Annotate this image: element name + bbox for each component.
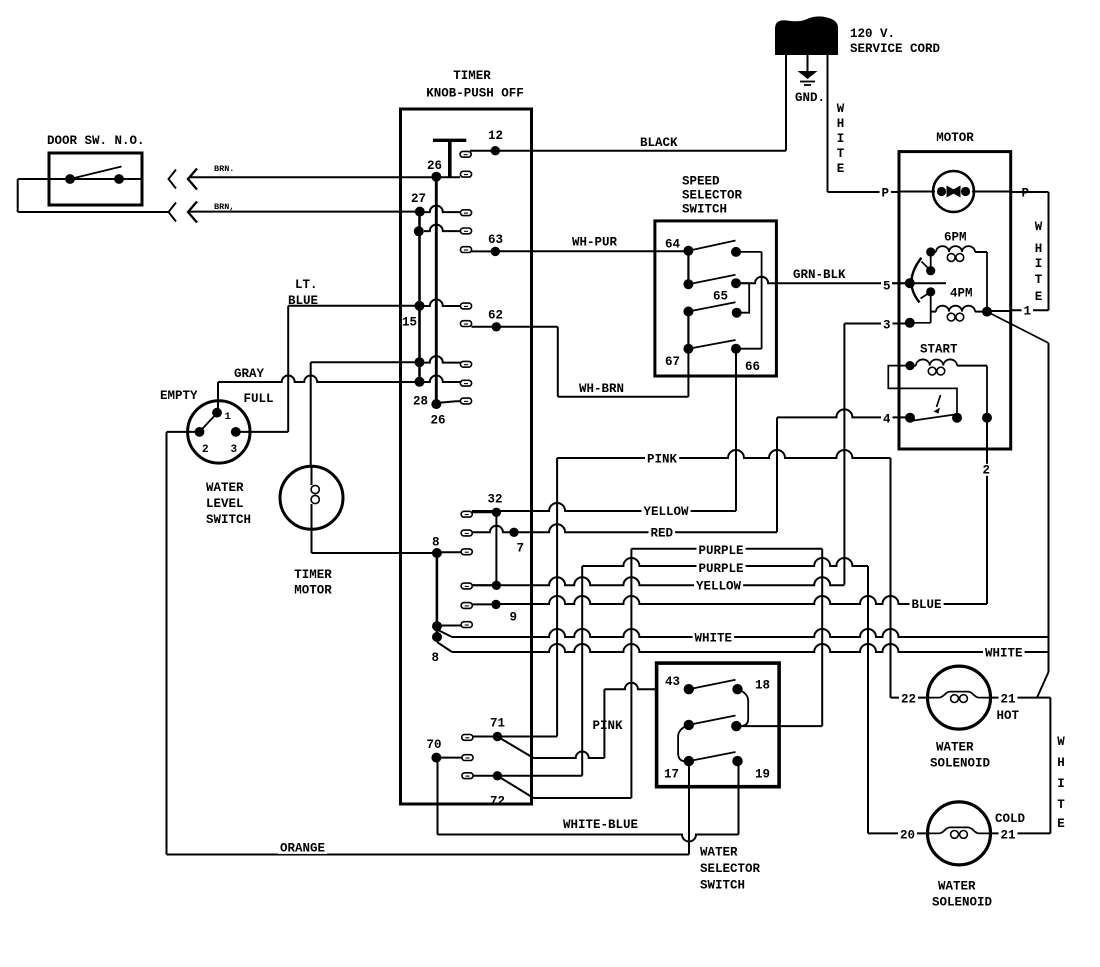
wire 19 riser to white-blue — [738, 761, 740, 834]
label WHITE vertical (solenoid link) — [1057, 735, 1065, 831]
svg-text:TIMER: TIMER — [453, 69, 491, 83]
label TIMER MOTOR — [294, 568, 332, 598]
svg-text:SOLENOID: SOLENOID — [930, 757, 991, 771]
svg-text:H: H — [837, 117, 845, 131]
wire 2 (motor to blue) — [946, 418, 987, 604]
wire timer motor riser — [310, 362, 312, 466]
label 15 — [402, 316, 417, 330]
svg-text:PURPLE: PURPLE — [699, 544, 744, 558]
svg-text:70: 70 — [427, 738, 442, 752]
svg-text:BRN.: BRN. — [214, 164, 234, 174]
wire 1 (motor) — [1011, 309, 1049, 311]
svg-text:T: T — [837, 147, 845, 161]
wire 62 to WH-BRN — [496, 327, 558, 397]
svg-text:28: 28 — [413, 395, 428, 409]
cold water solenoid — [928, 802, 991, 865]
label 32 — [488, 493, 503, 507]
label 5 (motor) — [881, 280, 893, 294]
svg-text:W: W — [837, 102, 845, 116]
svg-text:P: P — [882, 187, 890, 201]
connector chevron upper BRN — [169, 169, 198, 190]
label 4 (motor) — [881, 413, 893, 427]
wire WHITE 1 (timer 8 to solenoid common) — [437, 629, 1049, 652]
wire YELLOW (timer 32 to 66) — [472, 503, 736, 511]
svg-text:SELECTOR: SELECTOR — [682, 189, 743, 203]
speed selector box — [655, 221, 777, 376]
svg-text:120 V.: 120 V. — [850, 27, 895, 41]
label WATER SOLENOID (hot) — [930, 741, 991, 771]
timer node 8 lower — [432, 632, 442, 642]
wire RED (timer 7 to motor 4) — [514, 524, 777, 532]
label MOTOR — [936, 131, 974, 145]
svg-text:BLUE: BLUE — [912, 598, 942, 612]
svg-text:3: 3 — [883, 319, 891, 333]
speed selector pole 2 — [683, 275, 741, 289]
svg-text:6PM: 6PM — [944, 231, 967, 245]
wire 4 (red riser to motor) — [777, 409, 910, 532]
label 19 — [755, 768, 770, 782]
wire water selector to purple riser — [741, 725, 822, 727]
timer contact 9 — [461, 600, 501, 609]
label WATER LEVEL SWITCH — [206, 481, 251, 527]
svg-text:26: 26 — [431, 414, 446, 428]
wire ORANGE — [167, 854, 690, 856]
svg-text:MOTOR: MOTOR — [936, 131, 974, 145]
svg-text:21: 21 — [1001, 693, 1016, 707]
svg-text:GND.: GND. — [795, 91, 825, 105]
label WATER SELECTOR SWITCH — [700, 846, 761, 893]
label WHITE-BLUE — [563, 818, 638, 832]
timer contact 32 — [461, 508, 501, 518]
label 28 — [413, 395, 428, 409]
wire YELLOW 2 (timer to motor 3) — [472, 577, 844, 585]
svg-text:LEVEL: LEVEL — [206, 497, 244, 511]
timer contact (yellow2) junction — [461, 581, 501, 590]
label 43 — [665, 675, 680, 689]
speed selector left link 67 — [687, 312, 689, 349]
svg-text:2: 2 — [983, 464, 991, 478]
timer node 27 and contact — [415, 206, 472, 217]
svg-text:43: 43 — [665, 675, 680, 689]
wire BLUE (timer 9 to motor 2) — [496, 596, 946, 604]
label 72 — [490, 795, 505, 809]
svg-text:COLD: COLD — [995, 812, 1026, 826]
label WH-PUR — [570, 236, 619, 250]
svg-text:BLACK: BLACK — [640, 136, 678, 150]
speed selector pole 64 — [683, 241, 741, 257]
svg-text:WATER: WATER — [936, 741, 974, 755]
label TIMER KNOB-PUSH OFF — [426, 69, 524, 101]
label BRN. upper — [214, 164, 234, 174]
timer riser 32 to yellow2 junction — [495, 512, 497, 585]
wire motor node1 to box edge — [987, 310, 1011, 312]
svg-text:SWITCH: SWITCH — [700, 879, 745, 893]
wire ORANGE riser (left) — [166, 432, 168, 855]
timer node 70 and contact — [431, 753, 473, 763]
wire BRN lower (to timer 27) — [190, 211, 420, 213]
svg-text:E: E — [1035, 290, 1043, 304]
door switch DOOR SW. N.O. box — [49, 153, 142, 205]
svg-text:SPEED: SPEED — [682, 175, 720, 189]
label 8 (upper) — [432, 536, 440, 550]
svg-text:32: 32 — [488, 493, 503, 507]
svg-text:8: 8 — [432, 651, 440, 665]
svg-text:2: 2 — [202, 444, 209, 456]
motor centrifugal switch — [905, 258, 946, 303]
timer contact (white1) — [432, 621, 472, 631]
speed selector pole 3 — [683, 302, 741, 317]
timer main column (26) — [435, 177, 438, 405]
svg-text:15: 15 — [402, 316, 417, 330]
label 3 (motor) — [881, 319, 893, 333]
timer node (below 27) and contact — [414, 225, 472, 237]
svg-text:71: 71 — [490, 717, 505, 731]
label 120 V. SERVICE CORD — [850, 27, 941, 56]
wire 66 riser to YELLOW — [735, 349, 737, 511]
svg-text:SELECTOR: SELECTOR — [700, 862, 761, 876]
svg-text:SWITCH: SWITCH — [206, 513, 251, 527]
svg-text:H: H — [1057, 756, 1065, 770]
svg-text:YELLOW: YELLOW — [696, 580, 742, 594]
label 63 — [488, 233, 503, 247]
timer node 26 bottom and contact — [431, 398, 471, 409]
label 65 — [713, 290, 728, 304]
label 1 (motor) — [1022, 305, 1034, 319]
svg-text:65: 65 — [713, 290, 728, 304]
speed selector pole 67 — [683, 340, 741, 354]
label YELLOW (lower) — [694, 580, 743, 594]
wire FULL (timer to water level 1) — [218, 376, 420, 413]
timer box — [401, 109, 532, 804]
water level switch contacts — [195, 408, 241, 437]
label 64 — [665, 238, 681, 252]
svg-text:SWITCH: SWITCH — [682, 203, 727, 217]
wire 21 (cold solenoid) — [991, 832, 1051, 834]
svg-text:12: 12 — [488, 129, 503, 143]
timer lower column (8) — [436, 553, 439, 637]
svg-text:WATER: WATER — [206, 481, 244, 495]
label BLUE — [910, 598, 944, 612]
speed selector left link 64 — [687, 251, 689, 285]
wire BRN upper (to timer 26 line) — [190, 176, 461, 178]
svg-text:T: T — [1035, 273, 1043, 287]
svg-text:64: 64 — [665, 238, 681, 252]
wire 22 (pink to hot solenoid) — [891, 697, 928, 699]
svg-text:E: E — [837, 162, 845, 176]
motor box — [899, 152, 1011, 449]
label 21 (cold) — [999, 829, 1018, 843]
water selector 17 link — [678, 725, 689, 762]
wire GRAY (timer to timer-motor riser) — [311, 361, 420, 363]
svg-text:22: 22 — [901, 693, 916, 707]
wire PURPLE 2 (72 to cold solenoid) — [582, 558, 868, 833]
label 70 — [427, 738, 442, 752]
label WHITE vertical (service cord) — [837, 102, 845, 176]
wire timer 72 to purple riser — [497, 775, 582, 777]
label P (right) — [1020, 187, 1032, 201]
label ORANGE — [278, 842, 327, 856]
label 6PM — [944, 231, 967, 245]
svg-text:P: P — [1022, 187, 1030, 201]
motor node 1 — [982, 307, 992, 317]
svg-text:EMPTY: EMPTY — [160, 389, 198, 403]
120 V. service cord plug — [775, 16, 838, 55]
wire WH-PUR (timer 63 to speed selector 64) — [495, 250, 688, 252]
ground symbol — [798, 55, 818, 85]
wire timer 71 to pink riser — [497, 736, 557, 738]
wire motor P to white riser — [1011, 191, 1049, 193]
label 3 (water level) — [231, 444, 238, 456]
wire LT. BLUE (timer 15 to water level 3) — [288, 306, 419, 432]
svg-text:YELLOW: YELLOW — [644, 505, 690, 519]
svg-text:WHITE: WHITE — [985, 647, 1023, 661]
wire white riser (P to 1) — [1048, 192, 1050, 310]
svg-text:1: 1 — [225, 411, 231, 423]
timer node (gray wire) and contact — [415, 356, 472, 367]
svg-text:18: 18 — [755, 679, 770, 693]
svg-text:START: START — [920, 343, 958, 357]
water selector pole 17 — [684, 752, 743, 766]
svg-text:MOTOR: MOTOR — [294, 584, 332, 598]
wire 71 diagonal to 43 — [497, 737, 604, 759]
svg-text:H: H — [1035, 242, 1043, 256]
label FULL — [244, 392, 274, 406]
svg-text:20: 20 — [900, 829, 915, 843]
wire timer motor to timer 8 — [312, 529, 437, 553]
svg-text:63: 63 — [488, 233, 503, 247]
label 8 (lower) — [432, 651, 440, 665]
timer node (full wire) and contact — [415, 376, 472, 387]
svg-text:E: E — [1057, 817, 1065, 831]
wire WHITE (service cord to motor P) — [828, 55, 900, 192]
motor start switch — [905, 395, 992, 423]
wire WH-BRN — [558, 396, 689, 398]
wire 43 riser — [604, 683, 656, 758]
wire water level 2 to orange riser — [167, 431, 200, 433]
wire BLACK (service cord to timer 12) — [495, 55, 786, 151]
svg-text:4PM: 4PM — [950, 287, 973, 301]
svg-text:KNOB-PUSH OFF: KNOB-PUSH OFF — [426, 87, 524, 101]
timer node 8 and contact — [432, 548, 472, 558]
svg-text:GRN-BLK: GRN-BLK — [793, 268, 846, 282]
label GRAY — [234, 367, 265, 381]
svg-text:I: I — [1057, 777, 1065, 791]
svg-text:1: 1 — [1024, 305, 1032, 319]
label 27 — [411, 192, 426, 206]
timer contact oval (26 line) — [460, 171, 471, 177]
speed selector 65 bracket — [736, 283, 749, 313]
motor 4PM winding — [926, 287, 987, 323]
wire PINK (to hot solenoid) — [557, 450, 890, 737]
svg-text:WH-PUR: WH-PUR — [572, 236, 618, 250]
label P (left) — [880, 187, 892, 201]
svg-text:8: 8 — [432, 536, 440, 550]
motor diagonal node1 to white riser — [987, 312, 1049, 343]
timer knob T-bar — [433, 140, 466, 176]
label 18 — [755, 679, 770, 693]
wire 17 riser to orange — [688, 761, 690, 854]
svg-text:RED: RED — [651, 527, 674, 541]
door switch contacts and blade — [49, 167, 142, 184]
label 7 — [517, 542, 525, 556]
svg-text:I: I — [1035, 257, 1043, 271]
water selector pole 2 — [684, 716, 742, 732]
svg-text:66: 66 — [745, 360, 760, 374]
timer contact 72 — [462, 771, 502, 780]
timer contact 71 — [462, 732, 502, 741]
label 62 — [488, 309, 503, 323]
svg-text:FULL: FULL — [244, 392, 274, 406]
svg-text:67: 67 — [665, 355, 680, 369]
svg-text:9: 9 — [510, 611, 518, 625]
label 2 (water level) — [202, 444, 209, 456]
svg-text:ORANGE: ORANGE — [280, 842, 325, 856]
label YELLOW (upper) — [642, 505, 691, 519]
svg-text:WATER: WATER — [700, 846, 738, 860]
label BLACK — [640, 136, 678, 150]
label 1 (water level) — [225, 411, 231, 423]
svg-text:I: I — [837, 132, 845, 146]
label WH-BRN — [577, 382, 626, 396]
label DOOR SW. N.O. — [47, 134, 145, 148]
label SPEED SELECTOR SWITCH — [682, 175, 743, 217]
label PURPLE (lower) — [697, 562, 746, 576]
wire white riser (right side) — [1048, 343, 1050, 672]
label 26 (bottom) — [431, 414, 446, 428]
connector chevron lower BRN — [169, 202, 198, 223]
motor START winding — [905, 359, 987, 417]
svg-text:17: 17 — [664, 768, 679, 782]
label GRN-BLK — [791, 268, 848, 282]
hot water solenoid — [928, 666, 991, 729]
timer contact 12 — [460, 146, 500, 157]
motor 6PM winding — [926, 246, 987, 312]
label LT. BLUE — [288, 278, 318, 308]
label PURPLE (upper) — [697, 544, 746, 558]
label WHITE (right) — [983, 647, 1025, 661]
svg-text:T: T — [1057, 798, 1065, 812]
svg-text:SERVICE CORD: SERVICE CORD — [850, 42, 941, 56]
water selector 18 link — [738, 689, 749, 726]
timer motor coil — [311, 467, 319, 530]
water selector box — [657, 663, 780, 787]
svg-text:62: 62 — [488, 309, 503, 323]
label EMPTY — [160, 389, 198, 403]
label 22 — [899, 693, 918, 707]
wire WHITE-BLUE — [438, 758, 739, 842]
label 67 — [665, 355, 680, 369]
svg-text:WHITE: WHITE — [695, 632, 733, 646]
label WHITE (mid) — [693, 632, 735, 646]
label RED — [649, 527, 676, 541]
svg-text:3: 3 — [231, 444, 238, 456]
label 20 — [898, 829, 917, 843]
label START — [920, 343, 958, 357]
motor protector circle — [899, 171, 1011, 212]
svg-text:26: 26 — [427, 159, 442, 173]
label 4PM — [950, 287, 973, 301]
wire 72 diagonal to purple — [497, 776, 631, 798]
timer node 15 and contact — [415, 300, 472, 311]
svg-text:LT.: LT. — [295, 278, 318, 292]
wire GRN-BLK (65 to motor 5) — [736, 277, 938, 284]
motor start switch loop — [888, 366, 957, 418]
wire PURPLE 1 (72 to water selector) — [631, 549, 822, 798]
label PINK (water selector riser) — [591, 719, 625, 733]
label 26 (top) — [427, 159, 442, 173]
svg-text:5: 5 — [883, 280, 891, 294]
label GND. — [795, 91, 825, 105]
wire WHITE 2 (timer 8 lower) — [437, 642, 1049, 652]
wire 5 into motor — [892, 282, 910, 284]
timer contact 63 — [460, 247, 500, 256]
svg-text:27: 27 — [411, 192, 426, 206]
wire 67 riser to WH-BRN — [687, 349, 689, 397]
label 17 — [664, 768, 679, 782]
svg-text:4: 4 — [883, 413, 891, 427]
wire 20 (purple to cold solenoid) — [868, 832, 928, 834]
svg-text:GRAY: GRAY — [234, 367, 265, 381]
svg-text:DOOR SW. N.O.: DOOR SW. N.O. — [47, 134, 145, 148]
wire 21 (hot solenoid to white) — [991, 672, 1051, 698]
wire white link (hot 21 to cold 21) — [1049, 698, 1051, 834]
svg-text:PINK: PINK — [593, 719, 624, 733]
label 9 — [510, 611, 518, 625]
label COLD — [995, 812, 1026, 826]
label HOT — [997, 709, 1020, 723]
svg-text:WATER: WATER — [938, 880, 976, 894]
svg-text:TIMER: TIMER — [294, 568, 332, 582]
label PINK — [645, 453, 679, 467]
svg-text:WHITE-BLUE: WHITE-BLUE — [563, 818, 638, 832]
svg-text:72: 72 — [490, 795, 505, 809]
wire door switch loop (left) — [18, 179, 169, 212]
svg-text:HOT: HOT — [997, 709, 1020, 723]
label 2 (motor) — [981, 464, 993, 478]
label 71 — [490, 717, 505, 731]
label BRN, lower — [214, 202, 234, 212]
svg-text:WH-BRN: WH-BRN — [579, 382, 624, 396]
wire motor 3 — [844, 318, 930, 585]
label 12 — [488, 129, 503, 143]
timer node 26 — [431, 172, 441, 182]
timer contact 7 — [461, 526, 519, 537]
water selector pole 43 — [684, 680, 743, 695]
timer contact 62 — [460, 321, 501, 332]
label WHITE vertical (motor right) — [1035, 220, 1043, 304]
label WATER SOLENOID (cold) — [932, 880, 993, 910]
svg-text:7: 7 — [517, 542, 525, 556]
speed selector right link — [736, 252, 762, 349]
svg-text:PINK: PINK — [647, 453, 678, 467]
label 21 (hot) — [999, 693, 1018, 707]
timer left column — [418, 212, 421, 382]
wire water level 3 to LT.BLUE riser — [236, 431, 288, 433]
svg-text:W: W — [1035, 220, 1043, 234]
svg-text:PURPLE: PURPLE — [699, 562, 744, 576]
label 66 — [745, 360, 760, 374]
timer motor circle — [280, 466, 343, 529]
svg-text:BRN,: BRN, — [214, 202, 234, 212]
water level switch circle — [188, 401, 250, 463]
svg-text:21: 21 — [1001, 829, 1016, 843]
svg-text:19: 19 — [755, 768, 770, 782]
svg-text:W: W — [1057, 735, 1065, 749]
svg-text:SOLENOID: SOLENOID — [932, 896, 993, 910]
